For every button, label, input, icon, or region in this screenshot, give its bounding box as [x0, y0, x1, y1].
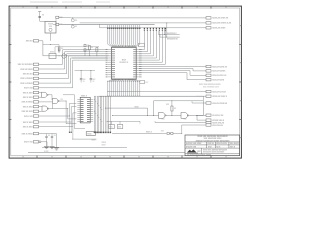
svg-text:XXX XXXXXXX XXXX: XXX XXXXXXX XXXX [203, 86, 220, 88]
svg-text:XX: XX [93, 81, 95, 83]
svg-text:XXX X XXX: XXX X XXX [23, 92, 34, 94]
svg-text:XXX-XX XXXX XX: XXX-XX XXXX XX [212, 66, 228, 68]
svg-text:XX: XX [48, 135, 50, 137]
svg-text:XXXX X: XXXX X [81, 96, 88, 98]
svg-text:XXX X XXX: XXX X XXX [23, 97, 34, 99]
svg-text:XXX-XX XXXX-XX: XXX-XX XXXX-XX [212, 103, 228, 105]
svg-text:XXX-XX XX XXX: XXX-XX XX XXX [212, 91, 226, 93]
svg-text:XXX X XXX: XXX X XXX [23, 106, 34, 108]
svg-text:XXXXXX XXXXXXXX XXXXX XXXXXXXX: XXXXXX XXXXXXXX XXXXX XXXXXXXX [196, 140, 231, 142]
svg-text:XXXXXX X: XXXXXX X [119, 62, 129, 64]
svg-text:XXX X XXXX: XXX X XXXX [21, 133, 33, 135]
svg-text:XXX X XX: XXX X XX [24, 116, 33, 118]
svg-text:XX: XX [83, 81, 85, 83]
svg-text:XXX: XXX [118, 127, 121, 129]
svg-text:XXX XX XX: XXX XX XX [23, 74, 34, 76]
svg-text:XX XXXX XXXXXX XXXX XXXXX: XX XXXX XXXXXX XXXX XXXXX [187, 154, 212, 156]
svg-text:XXXX-XX XXXX: XXXX-XX XXXX [212, 28, 226, 30]
svg-text:XXXX: XXXX [102, 144, 106, 146]
svg-text:XXX: XXX [161, 130, 164, 132]
svg-text:XXX: XXX [184, 118, 187, 120]
svg-text:XXX: XXX [162, 118, 165, 120]
svg-text:XXX X XX: XXX X XX [24, 88, 33, 90]
svg-text:XXX: XXX [93, 79, 96, 81]
svg-text:XXX X XXXXX: XXX X XXXXX [20, 83, 33, 85]
svg-text:XXX-XX XXXX: XXX-XX XXXX [212, 80, 225, 82]
svg-text:XXX X: XXX X [230, 146, 236, 148]
svg-text:XXX: XXX [145, 82, 148, 84]
svg-text:XXX XXX-XX: XXX XXX-XX [212, 125, 223, 127]
svg-text:XXXXXXX X: XXXXXXX X [167, 33, 177, 35]
svg-text:XXX: XXX [109, 127, 112, 129]
svg-text:XXX XX XXX: XXX XX XXX [21, 111, 33, 113]
svg-text:XXXX-XX XXXX XX: XXXX-XX XXXX XX [212, 18, 229, 20]
svg-text:XXX: XXX [83, 79, 86, 81]
svg-text:XXX XX XXXXXX: XXX XX XXXXXX [18, 64, 34, 66]
svg-text:XXX XX: XXX XX [207, 143, 214, 145]
svg-text:XXXXX XXX: XXXXX XXX [186, 146, 197, 148]
svg-text:XXX XX XXX: XXX XX XXX [216, 143, 227, 145]
svg-text:XXX XXXX: XXX XXXX [230, 143, 240, 145]
svg-text:XX XXX-X XX: XX XXX-X XX [212, 115, 224, 117]
svg-text:XXX-XXX XXXXX X-XX: XXX-XXX XXXXX X-XX [212, 23, 232, 25]
svg-text:XXXX XXX XXXXXXX XXXXX: XXXX XXX XXXXXXX XXXXX [199, 84, 221, 86]
svg-text:XXXXX XXX XXXX: XXXXX XXX XXXX [186, 143, 202, 145]
svg-text:XXX-XX XXXXX: XXX-XX XXXXX [212, 71, 226, 73]
svg-text:XXX XX XXXX: XXX XX XXXX [20, 69, 33, 71]
svg-text:XXX XX: XXX XX [26, 41, 34, 43]
svg-text:XXX X XXXX: XXX X XXXX [21, 102, 33, 104]
svg-text:XX: XX [54, 135, 56, 137]
svg-text:XXX X XXX: XXX X XXX [23, 127, 34, 129]
svg-text:XXX X XXX: XXX X XXX [23, 122, 34, 124]
svg-text:XXXX: XXXX [92, 140, 96, 142]
svg-text:XXX X XXXXX: XXX X XXXXX [20, 78, 33, 80]
svg-text:XXXXXXX XX: XXXXXXX XX [167, 39, 178, 41]
svg-text:XXXX-XX XXXX X: XXXX-XX XXXX X [212, 96, 228, 98]
svg-text:XXX: XXX [122, 59, 127, 61]
svg-text:XXX-XX XXX X-X: XXX-XX XXX X-X [212, 75, 227, 77]
svg-text:XXXXXXX XXXX XXXXXXX: XXXXXXX XXXX XXXXXXX [203, 152, 225, 154]
svg-text:XXX X XX: XXX X XX [24, 142, 33, 144]
